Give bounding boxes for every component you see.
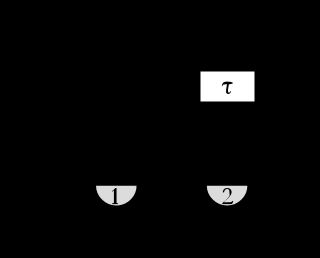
label 1 [112, 188, 118, 204]
place 1 (half-disk) [96, 185, 138, 206]
label 2 [222, 188, 233, 204]
transition box (silent step) [200, 71, 255, 102]
place 2 (half-disk) [206, 185, 248, 206]
label τ [222, 82, 233, 94]
